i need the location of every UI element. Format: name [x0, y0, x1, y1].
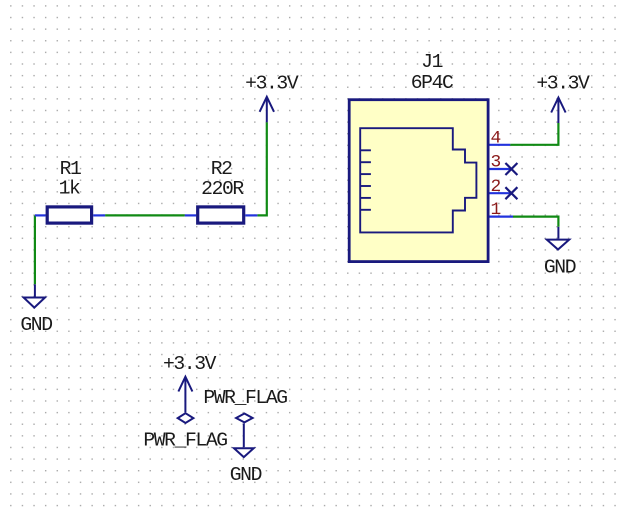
pin 1 of J1 [490, 216, 514, 218]
power +3.3V symbol right of J1 [551, 98, 565, 124]
wire J1 pin1 to GND [513, 217, 558, 227]
svg-text:1k: 1k [59, 178, 80, 200]
svg-text:3: 3 [491, 153, 501, 173]
svg-text:GND: GND [230, 464, 262, 486]
wire R2 right up to +3.3V [257, 122, 266, 215]
pin 3 of J1 [490, 168, 511, 170]
svg-text:PWR_FLAG: PWR_FLAG [203, 387, 287, 409]
resistor R2 [185, 207, 258, 223]
connector J1 6P4C [349, 100, 488, 262]
wire R1 left to GND corner [34, 215, 36, 284]
wire R1 right to R2 left [105, 214, 185, 216]
svg-text:R2: R2 [211, 158, 232, 180]
wire J1 pin4 to +3.3V [510, 123, 558, 145]
svg-text:1: 1 [491, 200, 501, 220]
svg-text:4: 4 [491, 128, 501, 148]
power flag PWR_FLAG on +3.3V (bottom left) [178, 377, 194, 423]
svg-text:2: 2 [491, 177, 501, 197]
ground GND below R1 [24, 284, 45, 307]
svg-text:+3.3V: +3.3V [245, 72, 299, 94]
jack outline [360, 128, 476, 232]
no-connect X on pin 2 [505, 187, 517, 199]
svg-text:6P4C: 6P4C [411, 72, 453, 94]
svg-text:+3.3V: +3.3V [163, 353, 217, 375]
ground GND right of J1 [547, 227, 569, 250]
power +3.3V symbol above R2 [260, 97, 274, 123]
svg-text:GND: GND [20, 314, 52, 336]
svg-text:GND: GND [544, 257, 576, 279]
svg-text:+3.3V: +3.3V [536, 73, 590, 95]
resistor R1 [35, 207, 105, 223]
pin 4 of J1 [490, 144, 511, 146]
svg-text:220R: 220R [201, 178, 244, 200]
no-connect X on pin 3 [505, 163, 517, 175]
svg-text:J1: J1 [421, 51, 442, 73]
svg-text:PWR_FLAG: PWR_FLAG [143, 430, 227, 452]
jack contact teeth [360, 150, 371, 210]
power flag PWR_FLAG on GND (bottom right) [234, 414, 254, 458]
pin 2 of J1 [490, 192, 511, 194]
